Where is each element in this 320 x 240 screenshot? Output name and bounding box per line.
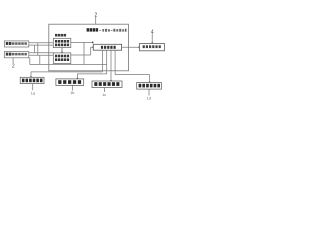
svg-text:2: 2 <box>95 12 98 18</box>
svg-text:1c: 1c <box>102 93 106 97</box>
svg-text:1b: 1b <box>70 91 74 95</box>
svg-text:2: 2 <box>12 64 15 70</box>
svg-text:4: 4 <box>151 29 154 35</box>
svg-text:1d: 1d <box>147 97 151 101</box>
